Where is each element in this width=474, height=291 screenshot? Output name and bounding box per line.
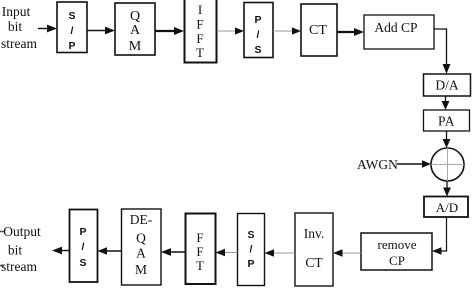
block QAM <box>115 3 155 55</box>
wire S/P to QAM <box>87 27 115 35</box>
wire adder to A/D <box>443 181 451 197</box>
svg-text:S: S <box>254 44 261 56</box>
wire A/D to remove CP <box>432 217 447 255</box>
wire S/P to FFT <box>216 249 238 257</box>
svg-text:DE-: DE- <box>130 212 153 227</box>
wire remove CP to Inv. CT <box>333 249 361 257</box>
wire AWGN to adder <box>397 160 431 168</box>
svg-text:Q: Q <box>130 9 140 24</box>
block IFFT <box>185 0 217 63</box>
node Output label <box>0 224 41 274</box>
wire D/A to PA <box>442 96 450 110</box>
svg-text:bit: bit <box>8 19 23 34</box>
block FFT <box>186 214 216 285</box>
svg-text:/: / <box>250 244 253 256</box>
wire FFT to DE-QAM <box>161 248 185 256</box>
block Inv. CT <box>295 213 333 286</box>
wire QAM to IFFT <box>155 27 184 35</box>
svg-text:F: F <box>196 244 203 259</box>
block P/S receiver <box>70 210 98 283</box>
adder circle (channel sum) <box>431 148 464 181</box>
svg-text:P: P <box>68 40 75 52</box>
svg-text:F: F <box>196 31 203 46</box>
svg-text:bit: bit <box>8 243 23 258</box>
svg-text:T: T <box>196 258 204 273</box>
block D/A <box>424 74 471 96</box>
svg-text:P: P <box>254 14 261 26</box>
wire DE-QAM to P/S <box>98 247 122 255</box>
block CT <box>301 4 337 56</box>
node Input label <box>1 4 37 51</box>
svg-text:stream: stream <box>1 259 37 274</box>
block P/S transmitter <box>244 3 273 58</box>
svg-text:A: A <box>130 23 141 38</box>
block S/P transmitter <box>57 2 87 53</box>
svg-text:A/D: A/D <box>436 200 458 215</box>
wire CT to Add CP <box>337 28 364 36</box>
block remove CP <box>361 233 432 270</box>
svg-text:M: M <box>135 262 147 277</box>
svg-text:CP: CP <box>389 253 405 268</box>
svg-text:Q: Q <box>136 231 146 246</box>
svg-text:Add CP: Add CP <box>374 20 417 35</box>
svg-text:F: F <box>196 17 203 32</box>
wire PA to adder <box>443 131 451 148</box>
svg-text:F: F <box>196 230 203 245</box>
block Add CP <box>364 15 434 49</box>
svg-text:P: P <box>79 226 86 238</box>
svg-text:Inv.: Inv. <box>304 226 325 241</box>
wire P/S to output <box>52 247 70 255</box>
svg-text:CT: CT <box>309 23 327 38</box>
block DE-QAM <box>122 209 162 285</box>
wire Add CP to D/A <box>434 29 450 74</box>
svg-text:D/A: D/A <box>435 78 459 93</box>
wire P/S to CT <box>273 27 301 34</box>
svg-text:/: / <box>257 29 260 41</box>
svg-text:remove: remove <box>378 237 417 252</box>
svg-text:PA: PA <box>438 114 455 129</box>
svg-text:Input: Input <box>2 4 31 19</box>
wire input to S/P <box>38 25 57 33</box>
svg-text:S: S <box>68 10 75 22</box>
svg-text:S: S <box>247 229 254 241</box>
block A/D <box>424 197 468 218</box>
block S/P receiver <box>238 214 265 286</box>
svg-text:P: P <box>247 258 254 270</box>
svg-text:/: / <box>71 25 74 37</box>
block PA <box>424 110 470 131</box>
svg-text:M: M <box>129 39 142 54</box>
svg-text:Output: Output <box>3 224 41 239</box>
svg-text:/: / <box>82 241 85 253</box>
svg-text:I: I <box>198 2 202 17</box>
svg-text:T: T <box>196 45 204 60</box>
svg-text:AWGN: AWGN <box>357 157 398 172</box>
svg-text:S: S <box>79 257 86 269</box>
svg-text:A: A <box>136 246 146 261</box>
svg-text:stream: stream <box>1 36 37 51</box>
wire IFFT to P/S <box>217 27 244 34</box>
wire Inv. CT to S/P <box>265 249 296 257</box>
svg-text:CT: CT <box>305 255 323 270</box>
